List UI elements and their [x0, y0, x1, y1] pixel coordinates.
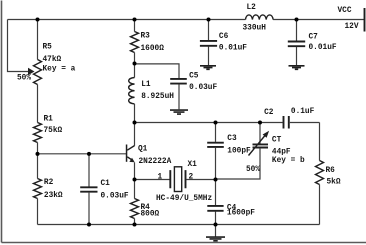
svg-text:R2: R2	[44, 179, 54, 187]
svg-text:100pF: 100pF	[227, 148, 251, 156]
svg-text:R6: R6	[326, 167, 336, 175]
svg-text:CT: CT	[272, 137, 282, 145]
svg-text:C5: C5	[189, 73, 199, 81]
svg-text:5kΩ: 5kΩ	[327, 179, 341, 187]
svg-text:Key = a: Key = a	[43, 66, 76, 74]
svg-text:0.01uF: 0.01uF	[219, 45, 247, 53]
svg-text:R3: R3	[141, 33, 151, 41]
svg-text:X1: X1	[188, 161, 198, 169]
svg-text:R1: R1	[44, 116, 54, 124]
svg-text:23kΩ: 23kΩ	[44, 192, 63, 200]
svg-text:50%: 50%	[246, 166, 260, 174]
svg-text:330uH: 330uH	[243, 25, 267, 33]
svg-text:75kΩ: 75kΩ	[44, 127, 63, 135]
svg-text:1600Ω: 1600Ω	[141, 45, 165, 53]
svg-text:1: 1	[158, 174, 163, 182]
svg-text:HC-49/U_5MHz: HC-49/U_5MHz	[156, 195, 212, 203]
svg-text:800Ω: 800Ω	[141, 211, 160, 219]
svg-text:C2: C2	[264, 109, 274, 117]
svg-text:C6: C6	[219, 33, 229, 41]
svg-text:C7: C7	[309, 34, 319, 42]
svg-text:C3: C3	[227, 135, 237, 143]
svg-text:0.01uF: 0.01uF	[309, 44, 337, 52]
svg-text:2N2222A: 2N2222A	[139, 158, 172, 166]
svg-text:L1: L1	[141, 81, 151, 89]
svg-text:44pF: 44pF	[272, 149, 291, 157]
svg-text:Q1: Q1	[138, 146, 148, 154]
svg-text:0.1uF: 0.1uF	[291, 108, 315, 116]
svg-text:0.03uF: 0.03uF	[101, 193, 129, 201]
svg-text:VCC: VCC	[338, 7, 352, 15]
svg-text:0.03uF: 0.03uF	[189, 84, 217, 92]
svg-text:12V: 12V	[345, 23, 359, 31]
svg-text:50%: 50%	[17, 75, 31, 83]
svg-text:47kΩ: 47kΩ	[43, 56, 62, 64]
svg-text:2: 2	[189, 174, 194, 182]
svg-text:8.925uH: 8.925uH	[141, 93, 174, 101]
svg-text:1600pF: 1600pF	[227, 209, 255, 217]
svg-text:L2: L2	[247, 4, 257, 12]
svg-text:C1: C1	[101, 180, 111, 188]
svg-text:R5: R5	[43, 44, 53, 52]
svg-text:Key = b: Key = b	[272, 157, 305, 165]
